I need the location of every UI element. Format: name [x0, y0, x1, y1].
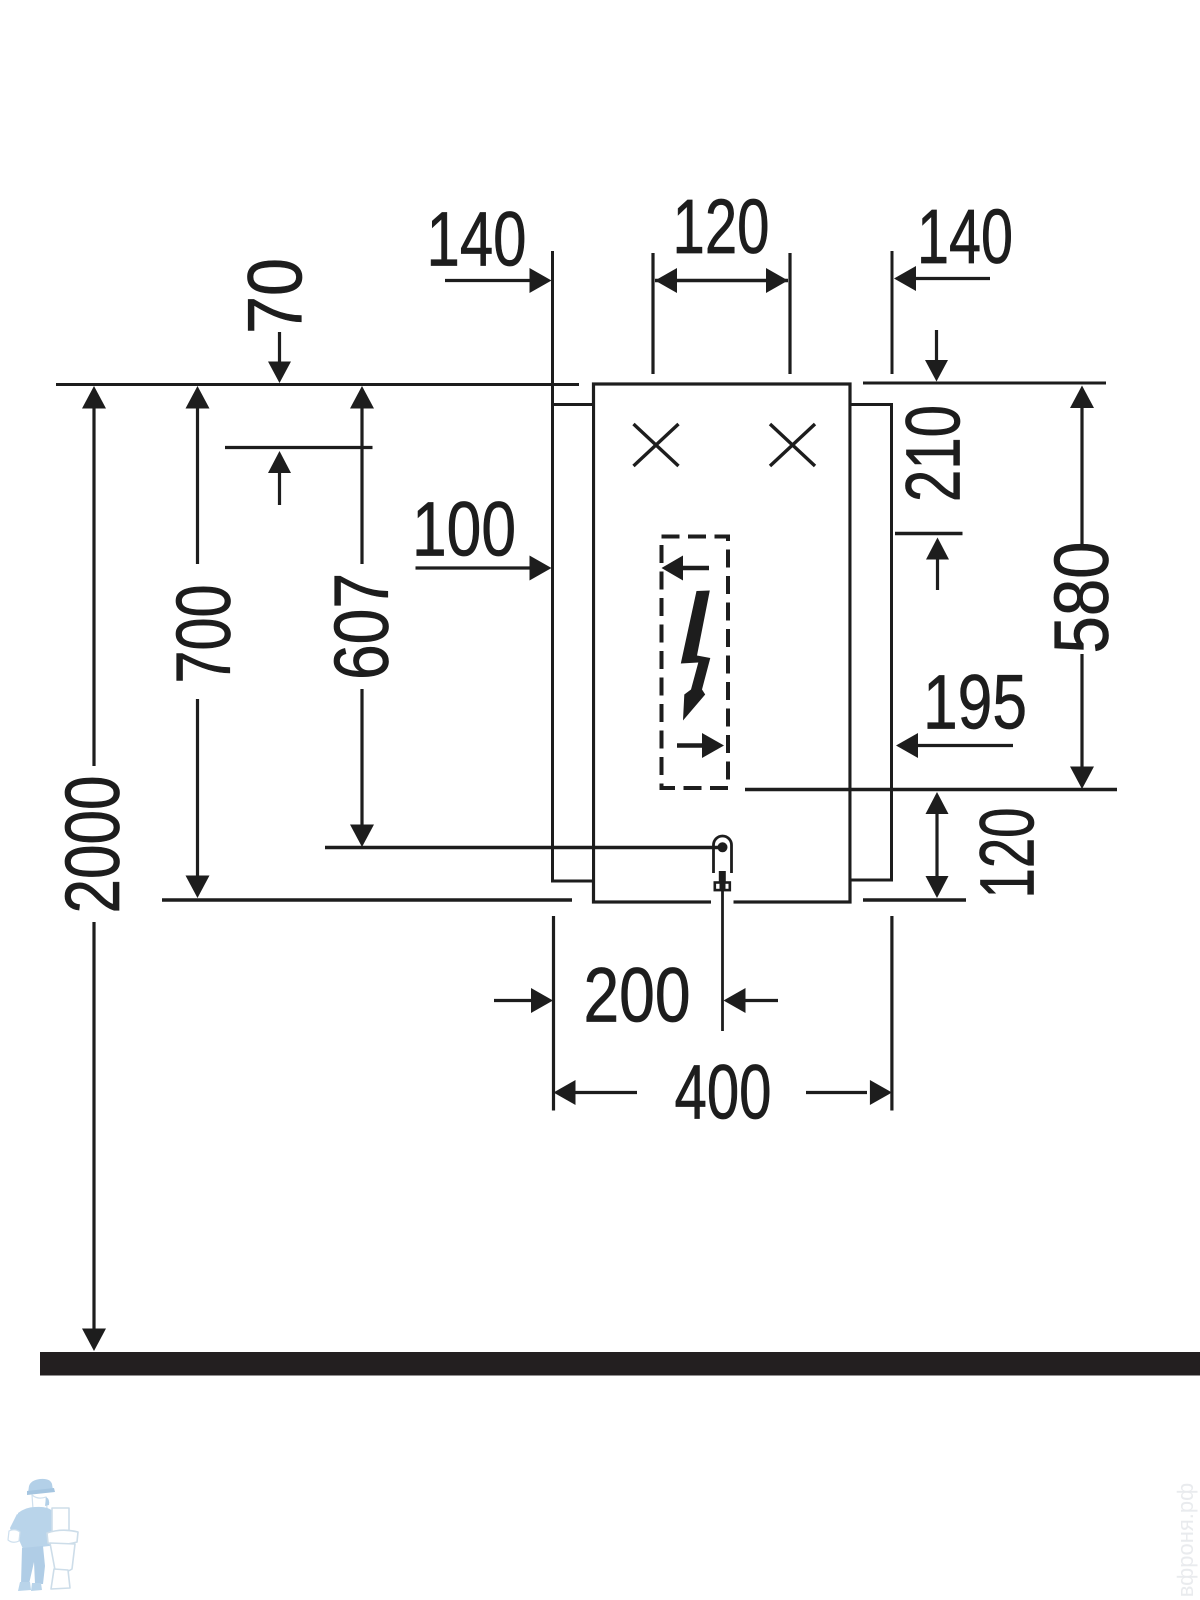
pull switch symbol — [714, 836, 732, 890]
svg-text:вфроня.рф: вфроня.рф — [1173, 1483, 1198, 1598]
dim 400 arrow right — [806, 1080, 892, 1105]
switch height line y847 — [325, 846, 718, 849]
dim 100 arrow — [416, 556, 552, 581]
svg-text:120: 120 — [673, 184, 770, 270]
dim 120 bottom-right arrows — [926, 792, 949, 898]
left side panel — [553, 405, 594, 882]
right side panel — [850, 405, 892, 881]
dim 2000 line + arrows — [82, 386, 106, 1351]
watermark plumber figure — [8, 1479, 58, 1591]
dim 607 line + arrows — [350, 386, 374, 847]
level line y789 — [745, 788, 1117, 791]
watermark toilet — [47, 1508, 78, 1589]
floor bar — [40, 1352, 1200, 1376]
wall top line left — [56, 383, 579, 386]
svg-text:400: 400 — [675, 1050, 772, 1136]
svg-text:140: 140 — [427, 197, 527, 283]
svg-text:200: 200 — [584, 953, 691, 1039]
extension line y900 left — [162, 898, 572, 901]
dim 120 extension lines — [653, 253, 790, 374]
electrical zone dashed box — [662, 537, 729, 789]
mounting mark X2 — [770, 424, 815, 466]
extension line x553 top — [551, 251, 554, 404]
svg-text:195: 195 — [923, 660, 1027, 746]
svg-text:100: 100 — [412, 487, 516, 573]
svg-text:700: 700 — [161, 585, 247, 684]
svg-text:580: 580 — [1039, 542, 1125, 654]
extension line x892 top — [891, 251, 894, 374]
cabinet body — [594, 384, 851, 902]
extension line y900 right — [863, 898, 966, 901]
dim 195 arrow — [896, 733, 1013, 758]
lightning bolt — [681, 591, 711, 721]
svg-text:2000: 2000 — [50, 776, 136, 914]
dim 120 arrow line — [655, 268, 788, 293]
svg-text:607: 607 — [319, 573, 405, 680]
dim 210 arrow up — [926, 538, 949, 591]
svg-text:120: 120 — [965, 808, 1051, 899]
dim 700 line + arrows — [186, 386, 210, 898]
bottom extension verticals — [554, 916, 892, 1111]
dim 580 line + arrows — [1070, 386, 1094, 790]
dim 140 right arrow — [894, 266, 990, 291]
dim 140 left arrow — [445, 268, 552, 293]
dim 200 arrow right — [724, 988, 779, 1013]
X-height extension line — [225, 446, 373, 449]
zone arrow left — [662, 556, 710, 581]
zone arrow right — [677, 733, 724, 758]
dim 200 arrow left — [494, 988, 553, 1013]
dim 210 extension line — [895, 532, 963, 536]
dim 70 arrow down — [268, 332, 291, 383]
dim 70 arrow up — [268, 451, 291, 505]
dim 400 arrow left — [554, 1080, 638, 1105]
svg-text:140: 140 — [917, 194, 1013, 280]
wall top line right — [863, 382, 1106, 385]
cabinet bottom gap at cable — [711, 897, 734, 906]
switch cable line — [721, 890, 724, 1031]
mounting mark X1 — [634, 424, 679, 466]
dim 210 arrow down (above wall line) — [925, 330, 948, 382]
svg-text:70: 70 — [233, 258, 319, 334]
svg-text:210: 210 — [891, 405, 977, 502]
